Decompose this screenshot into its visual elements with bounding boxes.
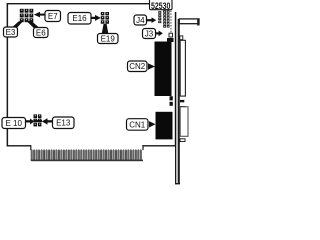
svg-text:J3: J3: [145, 29, 154, 38]
small outlined pad below J3 strip: [169, 33, 173, 37]
label CN1: [127, 119, 156, 131]
jumper block E3/E6/E7 (3x3): [20, 9, 34, 22]
board outline step down left of comb: [30, 145, 31, 150]
jumper strip J3 col a: [163, 10, 166, 27]
DB25 shell top screw tab: [180, 36, 183, 40]
svg-text:E7: E7: [48, 12, 58, 21]
DB9 shell top edge tab: [180, 106, 186, 108]
bracket top tab: [179, 19, 199, 26]
connector CN2: [155, 42, 172, 97]
board outline left edge: [7, 3, 9, 147]
label J4: [134, 15, 156, 25]
svg-text:E13: E13: [56, 119, 71, 128]
jumper strip J4: [158, 11, 161, 23]
DB9 shell (CN1): [180, 107, 188, 137]
board outline bottom-right edge: [142, 145, 176, 146]
svg-text:E 10: E 10: [5, 119, 22, 128]
svg-text:CN1: CN1: [129, 121, 146, 130]
svg-text:E6: E6: [36, 29, 46, 38]
jumper block E16/E19 (2x3): [101, 12, 109, 24]
bracket left edge below board: [175, 147, 176, 185]
svg-text:E19: E19: [101, 35, 116, 44]
connector CN2 top bump: [167, 38, 174, 42]
svg-text:J4: J4: [136, 16, 145, 25]
card edge connector fingers: [31, 150, 143, 162]
label E16: [68, 13, 101, 25]
svg-text:52530: 52530: [151, 1, 171, 11]
bracket bottom cap: [175, 183, 180, 184]
jumper block E10/E13 (2x3): [34, 114, 42, 126]
svg-text:CN2: CN2: [129, 62, 146, 71]
bracket right edge: [178, 19, 180, 184]
board outline top edge: [7, 3, 168, 4]
DB9 bottom screw tab: [180, 139, 185, 142]
part number 52530: [150, 0, 173, 11]
screw tab between shells: [180, 100, 184, 102]
svg-text:E16: E16: [72, 14, 87, 23]
board outline right edge: [175, 12, 177, 147]
jumper strip J3 col b: [167, 10, 170, 27]
board outline bottom-left edge: [7, 145, 31, 146]
label E3: [4, 21, 24, 37]
dashed pad column: [170, 11, 171, 33]
label CN2: [128, 61, 156, 72]
label E13: [42, 117, 74, 129]
label J3: [143, 29, 163, 39]
label E10: [2, 118, 42, 129]
connector CN1: [156, 112, 173, 140]
label E7: [34, 11, 61, 22]
2-pin jumper between CN2 and CN1: [170, 96, 173, 100]
board outline step down right of comb: [142, 145, 143, 150]
DB25 shell (CN2): [180, 40, 185, 96]
label E6: [27, 21, 48, 38]
svg-text:E3: E3: [6, 28, 16, 37]
label E19: [98, 24, 119, 44]
